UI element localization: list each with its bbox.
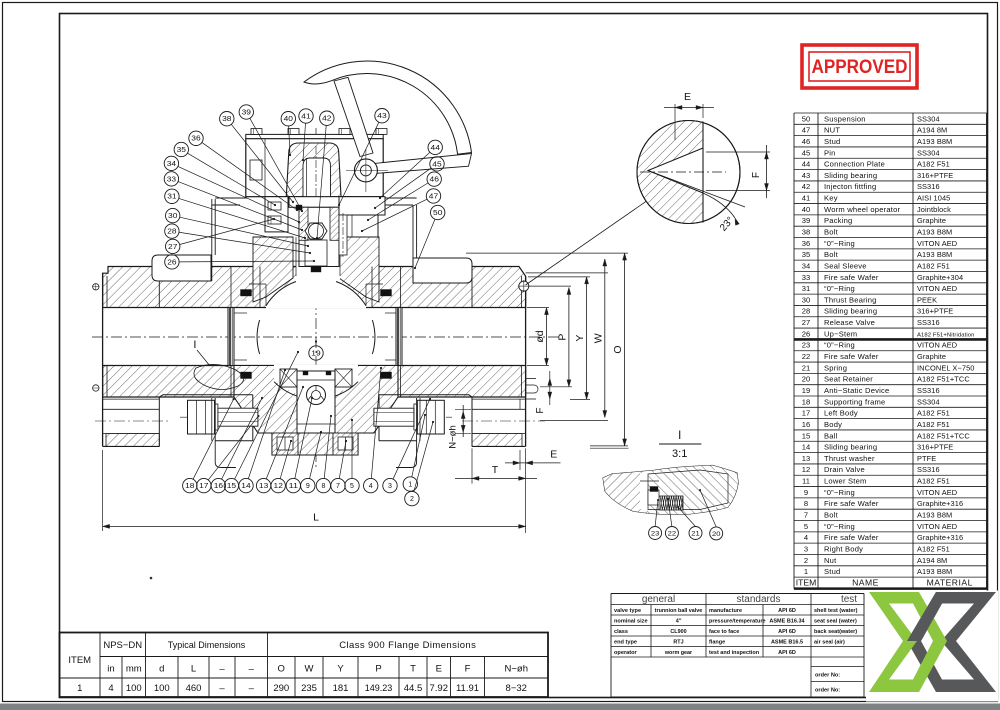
svg-text:A182 F51: A182 F51 — [917, 261, 950, 270]
svg-text:A193 B8M: A193 B8M — [917, 250, 952, 259]
svg-text:33: 33 — [167, 176, 176, 183]
svg-text:21: 21 — [691, 530, 700, 537]
svg-text:I: I — [678, 430, 681, 442]
svg-text:45: 45 — [802, 148, 810, 157]
svg-text:Ball: Ball — [824, 431, 838, 440]
svg-text:8−32: 8−32 — [506, 683, 527, 694]
svg-text:d: d — [159, 664, 164, 675]
svg-text:A182 F51: A182 F51 — [917, 420, 950, 429]
svg-text:2: 2 — [804, 556, 808, 565]
svg-text:A182 F51+TCC: A182 F51+TCC — [917, 375, 970, 384]
svg-text:SS316: SS316 — [917, 386, 940, 395]
svg-text:Lower Stem: Lower Stem — [824, 477, 867, 486]
svg-text:4: 4 — [108, 683, 113, 694]
svg-text:13: 13 — [259, 483, 268, 490]
svg-text:end type: end type — [614, 640, 637, 646]
svg-text:4″: 4″ — [676, 619, 682, 625]
svg-text:50: 50 — [433, 210, 442, 217]
svg-text:in: in — [107, 664, 114, 675]
svg-text:A193 B8M: A193 B8M — [917, 228, 952, 237]
svg-text:38: 38 — [802, 228, 810, 237]
svg-text:Fire safe Wafer: Fire safe Wafer — [824, 533, 879, 542]
svg-text:5: 5 — [350, 483, 354, 490]
svg-text:PTFE: PTFE — [917, 454, 936, 463]
svg-text:T: T — [410, 664, 416, 675]
svg-text:–: – — [249, 683, 255, 694]
svg-text:30: 30 — [802, 295, 810, 304]
svg-text:E: E — [550, 449, 557, 461]
svg-text:14: 14 — [241, 483, 250, 490]
svg-text:38: 38 — [222, 116, 231, 123]
svg-text:41: 41 — [802, 194, 810, 203]
svg-text:Class 900 Flange Dimensions: Class 900 Flange Dimensions — [339, 640, 476, 651]
svg-text:VITON AED: VITON AED — [917, 239, 957, 248]
svg-text:“0”−Ring: “0”−Ring — [824, 239, 855, 248]
svg-text:40: 40 — [284, 116, 293, 123]
svg-text:–: – — [219, 683, 225, 694]
svg-text:27: 27 — [802, 318, 810, 327]
svg-text:F: F — [535, 407, 546, 413]
svg-text:NAME: NAME — [852, 577, 879, 587]
svg-text:Connection Plate: Connection Plate — [824, 160, 885, 169]
svg-text:8: 8 — [804, 499, 808, 508]
svg-text:test: test — [841, 594, 857, 605]
svg-text:9: 9 — [804, 488, 808, 497]
svg-text:mm: mm — [126, 664, 142, 675]
svg-text:460: 460 — [186, 683, 202, 694]
svg-text:11: 11 — [802, 477, 810, 486]
svg-text:100: 100 — [126, 683, 142, 694]
svg-text:ITEM: ITEM — [68, 655, 91, 666]
svg-text:17: 17 — [802, 409, 810, 418]
svg-text:A182 F51+Nitridation: A182 F51+Nitridation — [917, 332, 975, 338]
svg-text:18: 18 — [185, 483, 194, 490]
svg-text:Graphite+316: Graphite+316 — [917, 499, 963, 508]
svg-text:Thrust Bearing: Thrust Bearing — [824, 295, 877, 304]
svg-text:316+PTFE: 316+PTFE — [917, 443, 953, 452]
svg-text:Bolt: Bolt — [824, 228, 839, 237]
svg-text:13: 13 — [802, 454, 810, 463]
svg-text:F: F — [465, 664, 471, 675]
svg-text:Anti−Static Device: Anti−Static Device — [824, 386, 889, 395]
svg-text:E: E — [684, 91, 691, 103]
svg-text:trunnion ball valve: trunnion ball valve — [655, 608, 703, 614]
svg-text:7: 7 — [336, 483, 340, 490]
svg-text:Bolt: Bolt — [824, 250, 839, 259]
svg-text:SS316: SS316 — [917, 465, 940, 474]
svg-text:back seat(water): back seat(water) — [814, 629, 857, 635]
svg-text:O: O — [278, 664, 285, 675]
svg-text:19: 19 — [802, 386, 810, 395]
svg-text:Right Body: Right Body — [824, 544, 863, 553]
svg-text:Suspension: Suspension — [824, 114, 866, 123]
svg-text:CL900: CL900 — [670, 629, 686, 635]
svg-text:A193 B8M: A193 B8M — [917, 137, 952, 146]
svg-text:ASME B16.5: ASME B16.5 — [771, 640, 803, 646]
svg-text:100: 100 — [154, 683, 170, 694]
svg-text:45: 45 — [432, 161, 441, 168]
svg-text:worm gear: worm gear — [664, 650, 693, 656]
svg-text:20: 20 — [712, 531, 721, 538]
svg-text:23: 23 — [651, 530, 660, 537]
svg-text:N−øh: N−øh — [505, 664, 529, 675]
svg-text:MATERIAL: MATERIAL — [927, 577, 973, 587]
svg-text:pressure/temperature: pressure/temperature — [709, 619, 766, 625]
svg-text:46: 46 — [802, 137, 810, 146]
svg-text:ASME B16.34: ASME B16.34 — [769, 619, 805, 625]
svg-text:3: 3 — [388, 483, 392, 490]
svg-text:Spring: Spring — [824, 363, 847, 372]
svg-text:17: 17 — [199, 483, 208, 490]
svg-text:RTJ: RTJ — [673, 640, 683, 646]
svg-text:31: 31 — [167, 194, 176, 201]
svg-text:VITON AED: VITON AED — [917, 341, 957, 350]
svg-text:1: 1 — [408, 481, 412, 488]
svg-text:VITON AED: VITON AED — [917, 284, 957, 293]
svg-text:41: 41 — [301, 113, 310, 120]
svg-text:Graphite+316: Graphite+316 — [917, 533, 963, 542]
svg-text:ød: ød — [534, 330, 546, 342]
svg-text:27: 27 — [168, 244, 177, 251]
svg-text:Jointblock: Jointblock — [917, 205, 951, 214]
svg-text:8: 8 — [321, 483, 325, 490]
svg-text:3:1: 3:1 — [672, 448, 687, 460]
svg-text:A182 F51: A182 F51 — [917, 409, 950, 418]
svg-text:E: E — [436, 664, 442, 675]
svg-text:11.91: 11.91 — [456, 683, 479, 694]
svg-text:P: P — [556, 334, 568, 341]
svg-text:O: O — [612, 345, 624, 353]
svg-text:Seat Retainer: Seat Retainer — [824, 375, 873, 384]
svg-text:Injecton fittfing: Injecton fittfing — [824, 182, 876, 191]
svg-text:PEEK: PEEK — [917, 295, 937, 304]
svg-text:47: 47 — [429, 193, 438, 200]
svg-text:14: 14 — [802, 443, 810, 452]
svg-text:“0”−Ring: “0”−Ring — [824, 488, 855, 497]
svg-text:9: 9 — [306, 483, 310, 490]
svg-text:4: 4 — [804, 533, 808, 542]
svg-text:W: W — [592, 333, 604, 343]
svg-text:44: 44 — [431, 145, 440, 152]
svg-text:SS304: SS304 — [917, 397, 940, 406]
svg-text:22: 22 — [668, 530, 677, 537]
svg-text:40: 40 — [802, 205, 810, 214]
svg-text:12: 12 — [274, 483, 283, 490]
svg-text:33: 33 — [802, 273, 810, 282]
svg-text:valve type: valve type — [614, 608, 641, 614]
svg-text:Up−Stem: Up−Stem — [824, 329, 857, 338]
svg-text:Thrust washer: Thrust washer — [824, 454, 875, 463]
svg-text:46: 46 — [430, 177, 439, 184]
svg-text:30: 30 — [168, 213, 177, 220]
svg-text:INCONEL X−750: INCONEL X−750 — [917, 363, 975, 372]
svg-text:manufacture: manufacture — [709, 608, 742, 614]
svg-text:“0”−Ring: “0”−Ring — [824, 522, 855, 531]
svg-text:43: 43 — [802, 171, 810, 180]
svg-text:35: 35 — [177, 147, 186, 154]
svg-text:36: 36 — [802, 239, 810, 248]
svg-text:44: 44 — [802, 160, 810, 169]
svg-text:34: 34 — [802, 261, 810, 270]
svg-text:operator: operator — [614, 650, 638, 656]
svg-text:7.92: 7.92 — [430, 683, 449, 694]
svg-text:15: 15 — [227, 483, 236, 490]
svg-text:2: 2 — [410, 496, 414, 503]
svg-text:A194 8M: A194 8M — [917, 126, 947, 135]
svg-text:42: 42 — [802, 182, 810, 191]
svg-text:Graphite: Graphite — [917, 352, 946, 361]
svg-text:A182 F51: A182 F51 — [917, 477, 950, 486]
svg-text:SS316: SS316 — [917, 182, 940, 191]
svg-text:Stud: Stud — [824, 567, 840, 576]
svg-text:21: 21 — [802, 363, 810, 372]
svg-text:VITON AED: VITON AED — [917, 488, 957, 497]
svg-text:air seal (air): air seal (air) — [814, 640, 845, 646]
svg-text:face to face: face to face — [709, 629, 739, 635]
svg-text:22: 22 — [802, 352, 810, 361]
svg-text:23: 23 — [802, 341, 810, 350]
svg-text:43: 43 — [377, 113, 386, 120]
svg-text:order No:: order No: — [815, 673, 840, 679]
svg-text:A194 8M: A194 8M — [917, 556, 947, 565]
svg-text:A182 F51: A182 F51 — [917, 544, 950, 553]
svg-text:7: 7 — [804, 511, 808, 520]
svg-text:28: 28 — [167, 229, 176, 236]
svg-text:seat seal (water): seat seal (water) — [814, 619, 857, 625]
svg-text:Supporting frame: Supporting frame — [824, 397, 885, 406]
svg-text:316+PTFE: 316+PTFE — [917, 171, 953, 180]
svg-text:39: 39 — [242, 109, 251, 116]
svg-text:APPROVED: APPROVED — [812, 56, 908, 78]
svg-text:Worm wheel operator: Worm wheel operator — [824, 205, 901, 214]
svg-text:Typical Dimensions: Typical Dimensions — [168, 640, 246, 650]
svg-text:16: 16 — [802, 420, 810, 429]
svg-text:–: – — [219, 664, 225, 675]
svg-text:NUT: NUT — [824, 126, 840, 135]
svg-text:Left Body: Left Body — [824, 409, 858, 418]
svg-text:nominal size: nominal size — [614, 619, 648, 625]
svg-text:Key: Key — [824, 194, 838, 203]
svg-text:Y: Y — [337, 664, 344, 675]
svg-text:VITON AED: VITON AED — [917, 522, 957, 531]
svg-text:1: 1 — [77, 683, 82, 694]
svg-text:39: 39 — [802, 216, 810, 225]
svg-text:235: 235 — [301, 683, 317, 694]
svg-text:15: 15 — [802, 431, 810, 440]
svg-text:290: 290 — [273, 683, 289, 694]
svg-text:–: – — [249, 664, 255, 675]
svg-text:AISI 1045: AISI 1045 — [917, 194, 950, 203]
svg-text:W: W — [305, 664, 314, 675]
svg-text:Fire safe Wafer: Fire safe Wafer — [824, 273, 879, 282]
svg-text:Seal Sleeve: Seal Sleeve — [824, 261, 867, 270]
svg-text:Sliding bearing: Sliding bearing — [824, 171, 877, 180]
svg-text:26: 26 — [802, 329, 810, 338]
svg-text:Drain Valve: Drain Valve — [824, 465, 865, 474]
svg-text:50: 50 — [802, 114, 810, 123]
svg-text:class: class — [614, 629, 628, 635]
svg-text:34: 34 — [167, 161, 176, 168]
svg-text:standards: standards — [737, 594, 781, 605]
svg-text:“0”−Ring: “0”−Ring — [824, 284, 855, 293]
svg-text:31: 31 — [802, 284, 810, 293]
svg-text:Fire safe Wafer: Fire safe Wafer — [824, 499, 879, 508]
svg-text:26: 26 — [167, 259, 176, 266]
svg-text:4: 4 — [369, 483, 373, 490]
svg-text:Sliding bearing: Sliding bearing — [824, 443, 877, 452]
svg-text:N−øh: N−øh — [448, 425, 459, 449]
svg-text:A182 F51: A182 F51 — [917, 160, 950, 169]
svg-text:“0”−Ring: “0”−Ring — [824, 341, 855, 350]
svg-text:general: general — [642, 594, 675, 605]
svg-text:Y: Y — [574, 335, 586, 342]
svg-text:L: L — [313, 512, 319, 524]
svg-text:20: 20 — [802, 375, 810, 384]
svg-text:47: 47 — [802, 126, 810, 135]
svg-text:L: L — [191, 664, 196, 675]
svg-text:181: 181 — [333, 683, 349, 694]
svg-text:Packing: Packing — [824, 216, 852, 225]
svg-text:36: 36 — [191, 136, 200, 143]
svg-text:1: 1 — [804, 567, 808, 576]
svg-text:order No:: order No: — [815, 688, 840, 694]
svg-text:A193 B8M: A193 B8M — [917, 567, 952, 576]
svg-text:SS304: SS304 — [917, 148, 940, 157]
svg-text:Sliding bearing: Sliding bearing — [824, 307, 877, 316]
svg-text:28: 28 — [802, 307, 810, 316]
svg-text:Graphite+304: Graphite+304 — [917, 273, 963, 282]
svg-text:3: 3 — [804, 544, 808, 553]
svg-text:16: 16 — [214, 483, 223, 490]
svg-text:API 6D: API 6D — [778, 629, 796, 635]
svg-text:T: T — [492, 464, 499, 476]
svg-text:Nut: Nut — [824, 556, 837, 565]
svg-text:flange: flange — [709, 640, 725, 646]
svg-text:19: 19 — [311, 350, 320, 357]
svg-text:5: 5 — [804, 522, 808, 531]
svg-text:shell test (water): shell test (water) — [814, 608, 858, 614]
svg-text:11: 11 — [289, 483, 298, 490]
svg-text:44.5: 44.5 — [404, 683, 423, 694]
svg-text:A193 B8M: A193 B8M — [917, 511, 952, 520]
svg-text:Pin: Pin — [824, 148, 836, 157]
svg-text:F: F — [751, 172, 762, 178]
svg-text:Release Valve: Release Valve — [824, 318, 875, 327]
svg-text:test and inspection: test and inspection — [709, 650, 760, 656]
svg-text:P: P — [375, 664, 381, 675]
svg-text:35: 35 — [802, 250, 810, 259]
svg-text:Fire safe Wafer: Fire safe Wafer — [824, 352, 879, 361]
svg-text:Bolt: Bolt — [824, 511, 839, 520]
svg-text:ITEM: ITEM — [796, 577, 817, 587]
svg-text:NPS−DN: NPS−DN — [103, 640, 142, 651]
svg-text:Graphite: Graphite — [917, 216, 946, 225]
svg-text:316+PTFE: 316+PTFE — [917, 307, 953, 316]
svg-text:149.23: 149.23 — [365, 683, 393, 693]
svg-text:SS304: SS304 — [917, 114, 940, 123]
svg-text:Stud: Stud — [824, 137, 840, 146]
svg-text:42: 42 — [322, 116, 331, 123]
svg-text:I: I — [193, 339, 196, 351]
svg-text:12: 12 — [802, 465, 810, 474]
svg-text:API 6D: API 6D — [778, 650, 796, 656]
svg-text:18: 18 — [802, 397, 810, 406]
svg-text:SS316: SS316 — [917, 318, 940, 327]
svg-text:A182 F51+TCC: A182 F51+TCC — [917, 431, 970, 440]
svg-text:API 6D: API 6D — [778, 608, 796, 614]
svg-text:Body: Body — [824, 420, 842, 429]
